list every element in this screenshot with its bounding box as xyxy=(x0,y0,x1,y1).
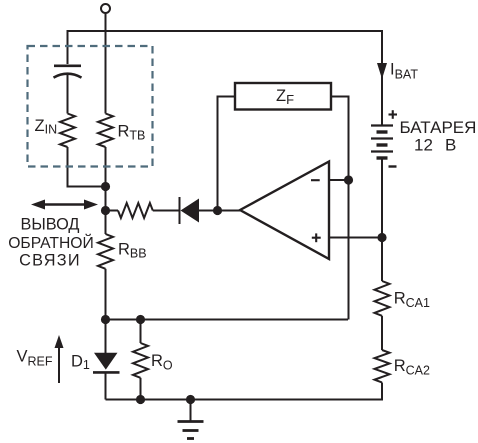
wire node to R_O xyxy=(140,320,142,344)
wire terminal to R_TB xyxy=(105,13,107,114)
wire R_TB to junction xyxy=(105,147,107,234)
resistor R_CA1 xyxy=(375,281,390,316)
svg-text:IBAT: IBAT xyxy=(390,61,418,82)
battery xyxy=(371,126,393,159)
dashed box Z_IN/R_TB xyxy=(28,46,153,167)
capacitor (Z_IN branch) xyxy=(54,66,82,78)
op-amp U1 xyxy=(240,162,329,260)
ground xyxy=(190,400,192,422)
wire battery to plus node xyxy=(381,158,383,238)
V_REF arrow xyxy=(55,335,64,383)
wire top rail xyxy=(68,31,383,126)
wire Z_F left leg xyxy=(218,97,236,211)
label battery plus xyxy=(389,110,398,119)
svg-text:В: В xyxy=(445,136,456,155)
resistor R_BB xyxy=(98,234,113,269)
svg-text:СВЯЗИ: СВЯЗИ xyxy=(19,251,81,269)
node non-inverting input xyxy=(377,233,386,242)
wire Z_IN bottom to node xyxy=(68,147,106,187)
wire D1 to bottom rail xyxy=(105,372,107,399)
label op-amp plus xyxy=(312,233,321,242)
wire R_BB to bottom node xyxy=(105,269,107,320)
box Z_F xyxy=(235,83,331,110)
wire diode to op-amp output xyxy=(199,210,240,212)
label battery minus xyxy=(389,165,397,167)
svg-text:БАТАРЕЯ: БАТАРЕЯ xyxy=(400,118,477,137)
node Z_IN/R_TB join xyxy=(101,182,110,191)
svg-text:RCA2: RCA2 xyxy=(394,357,430,378)
wire Z_F right leg xyxy=(331,97,349,320)
wire node to diode D1 xyxy=(105,320,107,354)
svg-text:D1: D1 xyxy=(71,353,90,373)
wire R_O to bottom rail xyxy=(140,378,142,400)
svg-text:ZIN: ZIN xyxy=(35,117,58,137)
svg-text:VREF: VREF xyxy=(17,348,53,369)
resistor R_CA2 xyxy=(375,350,390,383)
wire feedback node to resistor xyxy=(106,210,119,212)
wire plus node to R_CA1 xyxy=(381,238,383,282)
wire bottom rail xyxy=(106,383,383,400)
node R_O top xyxy=(136,315,145,324)
diode D1 xyxy=(94,353,118,370)
svg-text:12: 12 xyxy=(414,136,433,155)
node op-amp output xyxy=(213,206,222,215)
resistor R_O xyxy=(133,343,148,378)
svg-text:ВЫВОД: ВЫВОД xyxy=(21,216,80,234)
svg-text:RO: RO xyxy=(151,352,173,373)
wire non-inverting input xyxy=(329,237,382,239)
wire resistor to diode xyxy=(153,210,180,212)
label op-amp minus xyxy=(311,179,320,181)
I_BAT current arrow xyxy=(377,63,387,79)
resistor R_TB xyxy=(98,114,113,148)
svg-text:ОБРАТНОЙ: ОБРАТНОЙ xyxy=(8,233,94,252)
terminal xyxy=(101,4,110,13)
svg-text:RBB: RBB xyxy=(118,240,147,260)
svg-text:RTB: RTB xyxy=(118,122,146,142)
wire capacitor to Z_IN xyxy=(67,74,69,114)
node ground xyxy=(186,395,195,404)
node feedback tap xyxy=(101,206,110,215)
node R_O bottom xyxy=(136,395,145,404)
wire V_REF rail (mid) xyxy=(106,319,349,321)
resistor Z_IN xyxy=(60,114,75,148)
feedback double arrow xyxy=(31,200,98,210)
diode (feedback) xyxy=(179,197,181,224)
svg-text:RCA1: RCA1 xyxy=(394,289,430,310)
wire inverting input xyxy=(329,179,349,181)
wire R_CA1 to R_CA2 xyxy=(381,316,383,350)
resistor (feedback, horizontal) xyxy=(118,203,153,218)
node R_BB bottom xyxy=(101,315,110,324)
node inverting input xyxy=(344,175,353,184)
